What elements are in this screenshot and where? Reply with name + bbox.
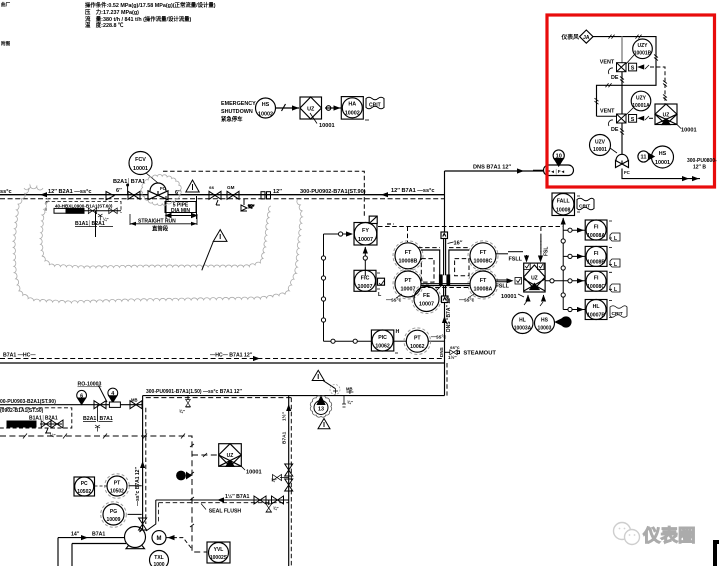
svg-text:B2A1│B7A1: B2A1│B7A1 bbox=[113, 177, 145, 185]
svg-text:CRIT: CRIT bbox=[579, 204, 590, 210]
svg-text:GM: GM bbox=[227, 185, 235, 190]
svg-text:直管段: 直管段 bbox=[152, 224, 169, 232]
svg-text:9: 9 bbox=[180, 474, 183, 480]
svg-text:RO-10003: RO-10003 bbox=[78, 382, 102, 388]
svg-text:10001: 10001 bbox=[501, 294, 517, 300]
svg-text:10003: 10003 bbox=[538, 326, 552, 332]
svg-text:11: 11 bbox=[641, 155, 647, 161]
svg-text:UZY: UZY bbox=[636, 96, 647, 102]
svg-text:F◄│F◄: F◄│F◄ bbox=[548, 168, 566, 175]
svg-text:HA: HA bbox=[348, 102, 356, 108]
svg-text:1000: 1000 bbox=[153, 562, 164, 566]
svg-text:HS: HS bbox=[262, 102, 270, 108]
svg-text:12″ B7A1 —ss°c: 12″ B7A1 —ss°c bbox=[391, 188, 434, 194]
svg-text:FIC: FIC bbox=[361, 275, 370, 281]
svg-text:B1A1│B2A1: B1A1│B2A1 bbox=[29, 415, 58, 422]
svg-text:10008B: 10008B bbox=[399, 259, 418, 265]
svg-text:10003A: 10003A bbox=[514, 326, 532, 332]
svg-text:FO: FO bbox=[160, 186, 167, 191]
svg-text:¾″: ¾″ bbox=[347, 400, 354, 405]
svg-text:10002S: 10002S bbox=[210, 555, 228, 561]
svg-text:B1A1│B2A1: B1A1│B2A1 bbox=[75, 220, 105, 227]
svg-text:FSLL: FSLL bbox=[509, 256, 523, 262]
svg-text:B7A1: B7A1 bbox=[92, 532, 105, 538]
svg-text:UZV: UZV bbox=[595, 140, 606, 146]
svg-text:H: H bbox=[396, 329, 400, 335]
svg-text:10001: 10001 bbox=[133, 166, 148, 172]
svg-text:10002: 10002 bbox=[345, 111, 360, 117]
svg-text:¼″: ¼″ bbox=[103, 217, 109, 222]
svg-text:13: 13 bbox=[318, 406, 324, 412]
svg-text:40-HBXL0900-B1A1(ST.60): 40-HBXL0900-B1A1(ST.60) bbox=[55, 204, 113, 209]
svg-text:10001: 10001 bbox=[681, 128, 697, 134]
svg-text:附图: 附图 bbox=[1, 40, 11, 47]
svg-text:FSLL: FSLL bbox=[496, 284, 510, 290]
svg-text:L: L bbox=[614, 236, 617, 242]
svg-text:10007: 10007 bbox=[358, 237, 373, 243]
svg-text:B7A1: B7A1 bbox=[282, 431, 288, 444]
svg-text:UZ: UZ bbox=[307, 107, 315, 113]
svg-text:10001A: 10001A bbox=[632, 103, 650, 109]
svg-text:CRIT: CRIT bbox=[369, 103, 381, 109]
svg-text:FT: FT bbox=[405, 250, 412, 256]
svg-text:S: S bbox=[631, 117, 635, 123]
svg-text:¾″: ¾″ bbox=[248, 203, 255, 209]
svg-text:10502: 10502 bbox=[110, 489, 124, 495]
svg-text:L: L bbox=[614, 262, 617, 268]
svg-text:16″: 16″ bbox=[454, 241, 463, 247]
svg-text:8: 8 bbox=[565, 321, 568, 327]
svg-text:ss: ss bbox=[209, 185, 215, 190]
svg-text:FC: FC bbox=[624, 170, 631, 175]
svg-text:FALL: FALL bbox=[557, 199, 571, 205]
svg-text:—HC— B7A1 12″: —HC— B7A1 12″ bbox=[210, 353, 253, 359]
svg-text:UZY: UZY bbox=[638, 43, 649, 49]
svg-text:S: S bbox=[631, 66, 635, 72]
svg-text:10001: 10001 bbox=[246, 470, 262, 476]
svg-text:HS: HS bbox=[541, 318, 549, 324]
svg-text:10007: 10007 bbox=[358, 284, 373, 290]
svg-text:DNS “B7A” 12″: DNS “B7A” 12″ bbox=[446, 295, 452, 332]
svg-text:4: 4 bbox=[111, 391, 114, 397]
svg-text:10008B: 10008B bbox=[587, 259, 605, 265]
svg-text:压 力:17.237 MPa(g): 压 力:17.237 MPa(g) bbox=[85, 8, 139, 16]
svg-text:300-PU0800-: 300-PU0800- bbox=[687, 158, 717, 164]
svg-text:DE: DE bbox=[611, 127, 619, 133]
svg-text:仪表风: 仪表风 bbox=[561, 33, 580, 41]
svg-text:10: 10 bbox=[556, 154, 562, 160]
svg-text:FT: FT bbox=[480, 278, 487, 284]
svg-text:1½″: 1½″ bbox=[281, 411, 288, 421]
svg-text:10062: 10062 bbox=[410, 344, 425, 350]
svg-text:300-PU0901-B7A1(1.50) —ss°c B: 300-PU0901-B7A1(1.50) —ss°c B7A1 12″ bbox=[146, 389, 242, 395]
svg-text:操作条件:0.52 MPa(g)/17.58 MPa(g)(: 操作条件:0.52 MPa(g)/17.58 MPa(g)(正常流量/设计量) bbox=[85, 1, 216, 9]
svg-text:10062: 10062 bbox=[375, 344, 390, 350]
svg-text:FSL: FSL bbox=[544, 247, 550, 256]
svg-text:YVL: YVL bbox=[214, 547, 224, 553]
svg-text:¾″: ¾″ bbox=[273, 506, 279, 511]
svg-text:SEAL FLUSH: SEAL FLUSH bbox=[209, 509, 242, 515]
svg-text:10001B: 10001B bbox=[634, 51, 652, 57]
svg-text:紧急停车: 紧急停车 bbox=[221, 115, 243, 123]
svg-text:FI: FI bbox=[594, 225, 599, 231]
svg-text:14″: 14″ bbox=[71, 532, 80, 538]
svg-text:L: L bbox=[614, 287, 617, 293]
svg-text:6″: 6″ bbox=[116, 188, 122, 194]
svg-text:6: 6 bbox=[80, 394, 83, 400]
svg-text:MB: MB bbox=[131, 398, 138, 403]
svg-text:PT: PT bbox=[114, 481, 120, 487]
svg-text:DIA MIN: DIA MIN bbox=[171, 208, 190, 214]
svg-text:1½″: 1½″ bbox=[448, 354, 457, 360]
svg-text:曲厂: 曲厂 bbox=[1, 1, 11, 8]
svg-text:MB: MB bbox=[346, 387, 353, 392]
svg-text:10502: 10502 bbox=[77, 489, 91, 495]
svg-text:盲板: 盲板 bbox=[13, 422, 22, 429]
svg-text:TXL: TXL bbox=[154, 555, 163, 561]
svg-text:VENT: VENT bbox=[600, 60, 615, 66]
svg-text:10008: 10008 bbox=[556, 208, 571, 214]
svg-text:00-PU0903-B2A1(ST.90): 00-PU0903-B2A1(ST.90) bbox=[0, 399, 56, 405]
svg-text:M: M bbox=[157, 536, 162, 542]
svg-text:PT: PT bbox=[414, 336, 421, 342]
svg-text:流 量:380 t/h / 841 t/h (操作流量/设计: 流 量:380 t/h / 841 t/h (操作流量/设计流量) bbox=[85, 15, 192, 23]
svg-text:SHUTDOWN: SHUTDOWN bbox=[221, 109, 253, 115]
svg-text:CRIT: CRIT bbox=[612, 311, 623, 317]
svg-text:UZ: UZ bbox=[531, 275, 538, 281]
svg-text:DNS: DNS bbox=[439, 347, 444, 357]
svg-text:VENT: VENT bbox=[600, 109, 615, 115]
svg-text:10008C: 10008C bbox=[587, 284, 605, 290]
svg-text:10008A: 10008A bbox=[587, 233, 605, 239]
svg-text:ss°c: ss°c bbox=[0, 189, 12, 195]
svg-text:STEAMOUT: STEAMOUT bbox=[463, 351, 496, 357]
svg-text:FY: FY bbox=[362, 228, 369, 234]
svg-text:FE: FE bbox=[423, 293, 430, 299]
svg-text:300-PU0902-B7A1(ST.90): 300-PU0902-B7A1(ST.90) bbox=[300, 189, 366, 195]
svg-text:12″ B2A1 —ss°c: 12″ B2A1 —ss°c bbox=[48, 189, 91, 195]
svg-text:PG: PG bbox=[110, 509, 117, 515]
svg-text:DNS B7A1 12″: DNS B7A1 12″ bbox=[473, 165, 511, 171]
svg-text:FT: FT bbox=[480, 250, 487, 256]
svg-text:PC: PC bbox=[81, 481, 88, 487]
svg-text:10007B: 10007B bbox=[587, 313, 605, 319]
svg-text:FCV: FCV bbox=[135, 157, 146, 163]
svg-text:PIC: PIC bbox=[378, 335, 387, 341]
svg-text:HS: HS bbox=[659, 151, 667, 157]
svg-text:10008A: 10008A bbox=[474, 287, 493, 293]
svg-text:UZ: UZ bbox=[663, 112, 670, 118]
svg-text:温 度:228.8 ℃: 温 度:228.8 ℃ bbox=[85, 21, 124, 29]
svg-text:B2A1│B7A1: B2A1│B7A1 bbox=[83, 415, 113, 422]
svg-text:EMERGENCY: EMERGENCY bbox=[221, 101, 256, 107]
svg-text:FI: FI bbox=[594, 276, 599, 282]
svg-text:HL: HL bbox=[519, 318, 526, 324]
svg-text:12″: 12″ bbox=[273, 189, 282, 195]
svg-text:ss°c: ss°c bbox=[450, 345, 460, 350]
svg-text:DE: DE bbox=[611, 75, 619, 81]
svg-text:¾″: ¾″ bbox=[271, 478, 277, 483]
svg-text:—ss°c: —ss°c bbox=[386, 298, 402, 304]
svg-text:PT: PT bbox=[405, 278, 413, 284]
svg-text:10001: 10001 bbox=[319, 123, 335, 129]
svg-text:10001: 10001 bbox=[593, 147, 607, 153]
svg-text:仪表圈: 仪表圈 bbox=[642, 526, 696, 546]
svg-text:12″ B: 12″ B bbox=[693, 165, 706, 171]
svg-text:UZ: UZ bbox=[227, 453, 234, 459]
svg-text:10002: 10002 bbox=[258, 112, 273, 118]
svg-text:—ss°c: —ss°c bbox=[431, 335, 447, 341]
svg-text:B7A1 —HC—: B7A1 —HC— bbox=[3, 353, 36, 359]
svg-text:10007: 10007 bbox=[401, 287, 416, 293]
svg-text:—ss°c: —ss°c bbox=[459, 298, 475, 304]
svg-text:HL: HL bbox=[593, 304, 601, 310]
svg-text:10001: 10001 bbox=[655, 160, 670, 166]
svg-text:10007: 10007 bbox=[419, 302, 434, 308]
svg-text:10008C: 10008C bbox=[474, 259, 493, 265]
svg-text:¾″: ¾″ bbox=[179, 409, 186, 414]
svg-text:10009: 10009 bbox=[107, 517, 121, 523]
svg-text:1½″ B7A1: 1½″ B7A1 bbox=[225, 493, 250, 500]
svg-text:JA: JA bbox=[583, 35, 590, 41]
svg-text:(0902-B1A1(ST.50): (0902-B1A1(ST.50) bbox=[0, 408, 44, 414]
svg-text:FI: FI bbox=[594, 251, 599, 257]
